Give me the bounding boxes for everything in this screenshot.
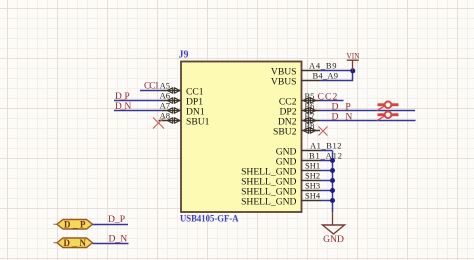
svg-text:VIN: VIN bbox=[347, 50, 361, 60]
no-ERC cross on SBU1 bbox=[153, 118, 164, 129]
wire CC2 bbox=[320, 100, 344, 102]
junction dot VIN bbox=[350, 68, 355, 73]
port D_P bbox=[54, 219, 93, 229]
pin SHELL_GND (SH3) bbox=[241, 181, 332, 198]
junction dot SH1 bbox=[330, 168, 335, 173]
junction dot SH3 bbox=[330, 188, 335, 193]
wire VBUS top bbox=[320, 70, 353, 72]
svg-text:A6: A6 bbox=[160, 91, 170, 101]
wire from port D_N bbox=[93, 243, 129, 245]
wire GND bus vertical bbox=[332, 151, 334, 213]
wire D_N right bbox=[320, 120, 416, 122]
svg-text:B7: B7 bbox=[305, 111, 315, 121]
svg-text:A8: A8 bbox=[160, 111, 170, 121]
svg-text:A4_B9: A4_B9 bbox=[309, 61, 337, 71]
power port GND bbox=[323, 212, 345, 245]
differential pair directive on D_P bbox=[377, 102, 399, 111]
junction dot SH2 bbox=[330, 178, 335, 183]
power port VIN bbox=[347, 50, 361, 70]
svg-text:D_P: D_P bbox=[115, 92, 129, 102]
svg-text:D_N: D_N bbox=[109, 233, 128, 244]
pin VBUS (A4 B9) bbox=[271, 61, 337, 78]
pin SBU1 (A8) bbox=[159, 111, 210, 128]
svg-text:B8: B8 bbox=[305, 121, 315, 131]
svg-text:D_N: D_N bbox=[115, 102, 131, 112]
junction dot SH4 bbox=[330, 198, 335, 203]
svg-text:SBU2: SBU2 bbox=[273, 126, 297, 137]
svg-text:SH3: SH3 bbox=[305, 181, 320, 191]
svg-text:SH2: SH2 bbox=[305, 171, 320, 181]
wire CC1 bbox=[140, 90, 162, 92]
pin CC2 (B5) bbox=[279, 91, 320, 107]
differential pair directive on D_N bbox=[377, 112, 399, 121]
pin GND (A1 B12) bbox=[276, 141, 342, 158]
svg-text:SHELL_GND: SHELL_GND bbox=[241, 196, 296, 207]
pin SBU2 (B8) bbox=[273, 121, 320, 137]
svg-text:D_N: D_N bbox=[63, 238, 88, 248]
wire VBUS bottom + riser bbox=[320, 71, 353, 81]
svg-text:D_N: D_N bbox=[332, 111, 354, 122]
pin SHELL_GND (SH2) bbox=[241, 171, 332, 188]
pin VBUS (B4 A9) bbox=[271, 71, 338, 88]
svg-text:B4_A9: B4_A9 bbox=[313, 71, 339, 81]
svg-text:CC1: CC1 bbox=[144, 82, 160, 92]
port D_N bbox=[54, 238, 93, 248]
svg-text:B1_A12: B1_A12 bbox=[309, 151, 342, 161]
pin SHELL_GND (SH1) bbox=[241, 161, 332, 178]
pin DN1 (A7) bbox=[160, 101, 205, 118]
pin GND (B1 A12) bbox=[276, 151, 342, 168]
svg-text:A7: A7 bbox=[160, 101, 170, 111]
pin CC1 (A5) bbox=[160, 81, 204, 98]
wire D_P right bbox=[320, 110, 415, 112]
junction dot GND B1/A12 bbox=[330, 158, 335, 163]
wire D_N left bbox=[114, 110, 162, 112]
svg-text:VBUS: VBUS bbox=[271, 76, 297, 87]
svg-text:SBU1: SBU1 bbox=[186, 116, 210, 127]
svg-text:J9: J9 bbox=[179, 50, 189, 61]
no-ERC cross on SBU2 bbox=[319, 127, 328, 136]
pin DP1 (A6) bbox=[160, 91, 204, 108]
pin DP2 (B6) bbox=[279, 101, 320, 117]
svg-text:B5: B5 bbox=[305, 91, 315, 101]
connector J9 body bbox=[181, 62, 302, 213]
svg-text:SH1: SH1 bbox=[305, 161, 320, 171]
pin DN2 (B7) bbox=[278, 111, 320, 127]
pin SHELL_GND (SH4) bbox=[241, 191, 332, 208]
svg-text:D_P: D_P bbox=[64, 219, 88, 229]
svg-text:GND: GND bbox=[323, 234, 344, 245]
svg-text:B6: B6 bbox=[305, 101, 315, 111]
svg-text:USB4105-GF-A: USB4105-GF-A bbox=[180, 214, 239, 225]
svg-text:SH4: SH4 bbox=[305, 191, 321, 201]
svg-text:A1_B12: A1_B12 bbox=[310, 141, 342, 151]
svg-text:D_P: D_P bbox=[108, 214, 125, 225]
svg-text:A5: A5 bbox=[160, 81, 170, 91]
wire from port D_P bbox=[93, 224, 129, 226]
wire D_P left bbox=[114, 100, 162, 102]
